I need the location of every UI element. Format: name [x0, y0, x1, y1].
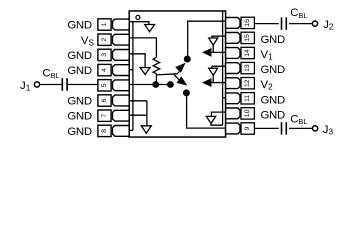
svg-text:GND: GND	[67, 65, 91, 77]
svg-text:5: 5	[101, 83, 108, 87]
svg-text:2: 2	[101, 38, 108, 42]
svg-text:GND: GND	[67, 95, 91, 107]
svg-text:GND: GND	[261, 94, 285, 106]
svg-text:9: 9	[244, 126, 251, 130]
svg-text:GND: GND	[67, 126, 91, 138]
svg-text:GND: GND	[67, 111, 91, 123]
svg-text:13: 13	[244, 64, 251, 72]
svg-text:14: 14	[244, 49, 251, 57]
svg-text:12: 12	[244, 79, 251, 87]
svg-text:6: 6	[101, 98, 108, 102]
svg-text:GND: GND	[67, 50, 91, 62]
svg-text:15: 15	[244, 34, 251, 42]
svg-text:8: 8	[101, 129, 108, 133]
svg-text:GND: GND	[261, 64, 285, 76]
svg-text:7: 7	[101, 114, 108, 118]
svg-text:GND: GND	[67, 19, 91, 31]
svg-text:16: 16	[244, 19, 251, 27]
svg-text:4: 4	[101, 68, 108, 72]
svg-text:GND: GND	[261, 34, 285, 46]
svg-text:GND: GND	[261, 109, 285, 121]
svg-text:10: 10	[244, 109, 251, 117]
svg-text:3: 3	[101, 53, 108, 57]
svg-text:1: 1	[101, 22, 108, 26]
svg-text:11: 11	[244, 95, 251, 102]
